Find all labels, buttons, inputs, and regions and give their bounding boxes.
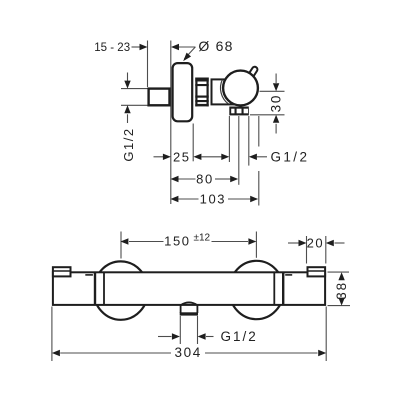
svg-text:G1/2: G1/2 xyxy=(271,150,310,165)
svg-text:±12: ±12 xyxy=(194,233,211,244)
svg-text:Ø 68: Ø 68 xyxy=(198,38,233,54)
svg-text:20: 20 xyxy=(307,235,325,250)
svg-text:G1/2: G1/2 xyxy=(221,329,258,344)
svg-text:150: 150 xyxy=(164,234,191,249)
svg-text:30: 30 xyxy=(268,94,283,113)
svg-text:25: 25 xyxy=(173,149,191,164)
svg-text:103: 103 xyxy=(200,192,227,207)
svg-text:304: 304 xyxy=(175,345,202,360)
svg-text:G1/2: G1/2 xyxy=(121,127,136,161)
svg-text:38: 38 xyxy=(334,281,349,300)
svg-text:15 - 23: 15 - 23 xyxy=(94,42,130,54)
svg-text:80: 80 xyxy=(196,172,214,187)
